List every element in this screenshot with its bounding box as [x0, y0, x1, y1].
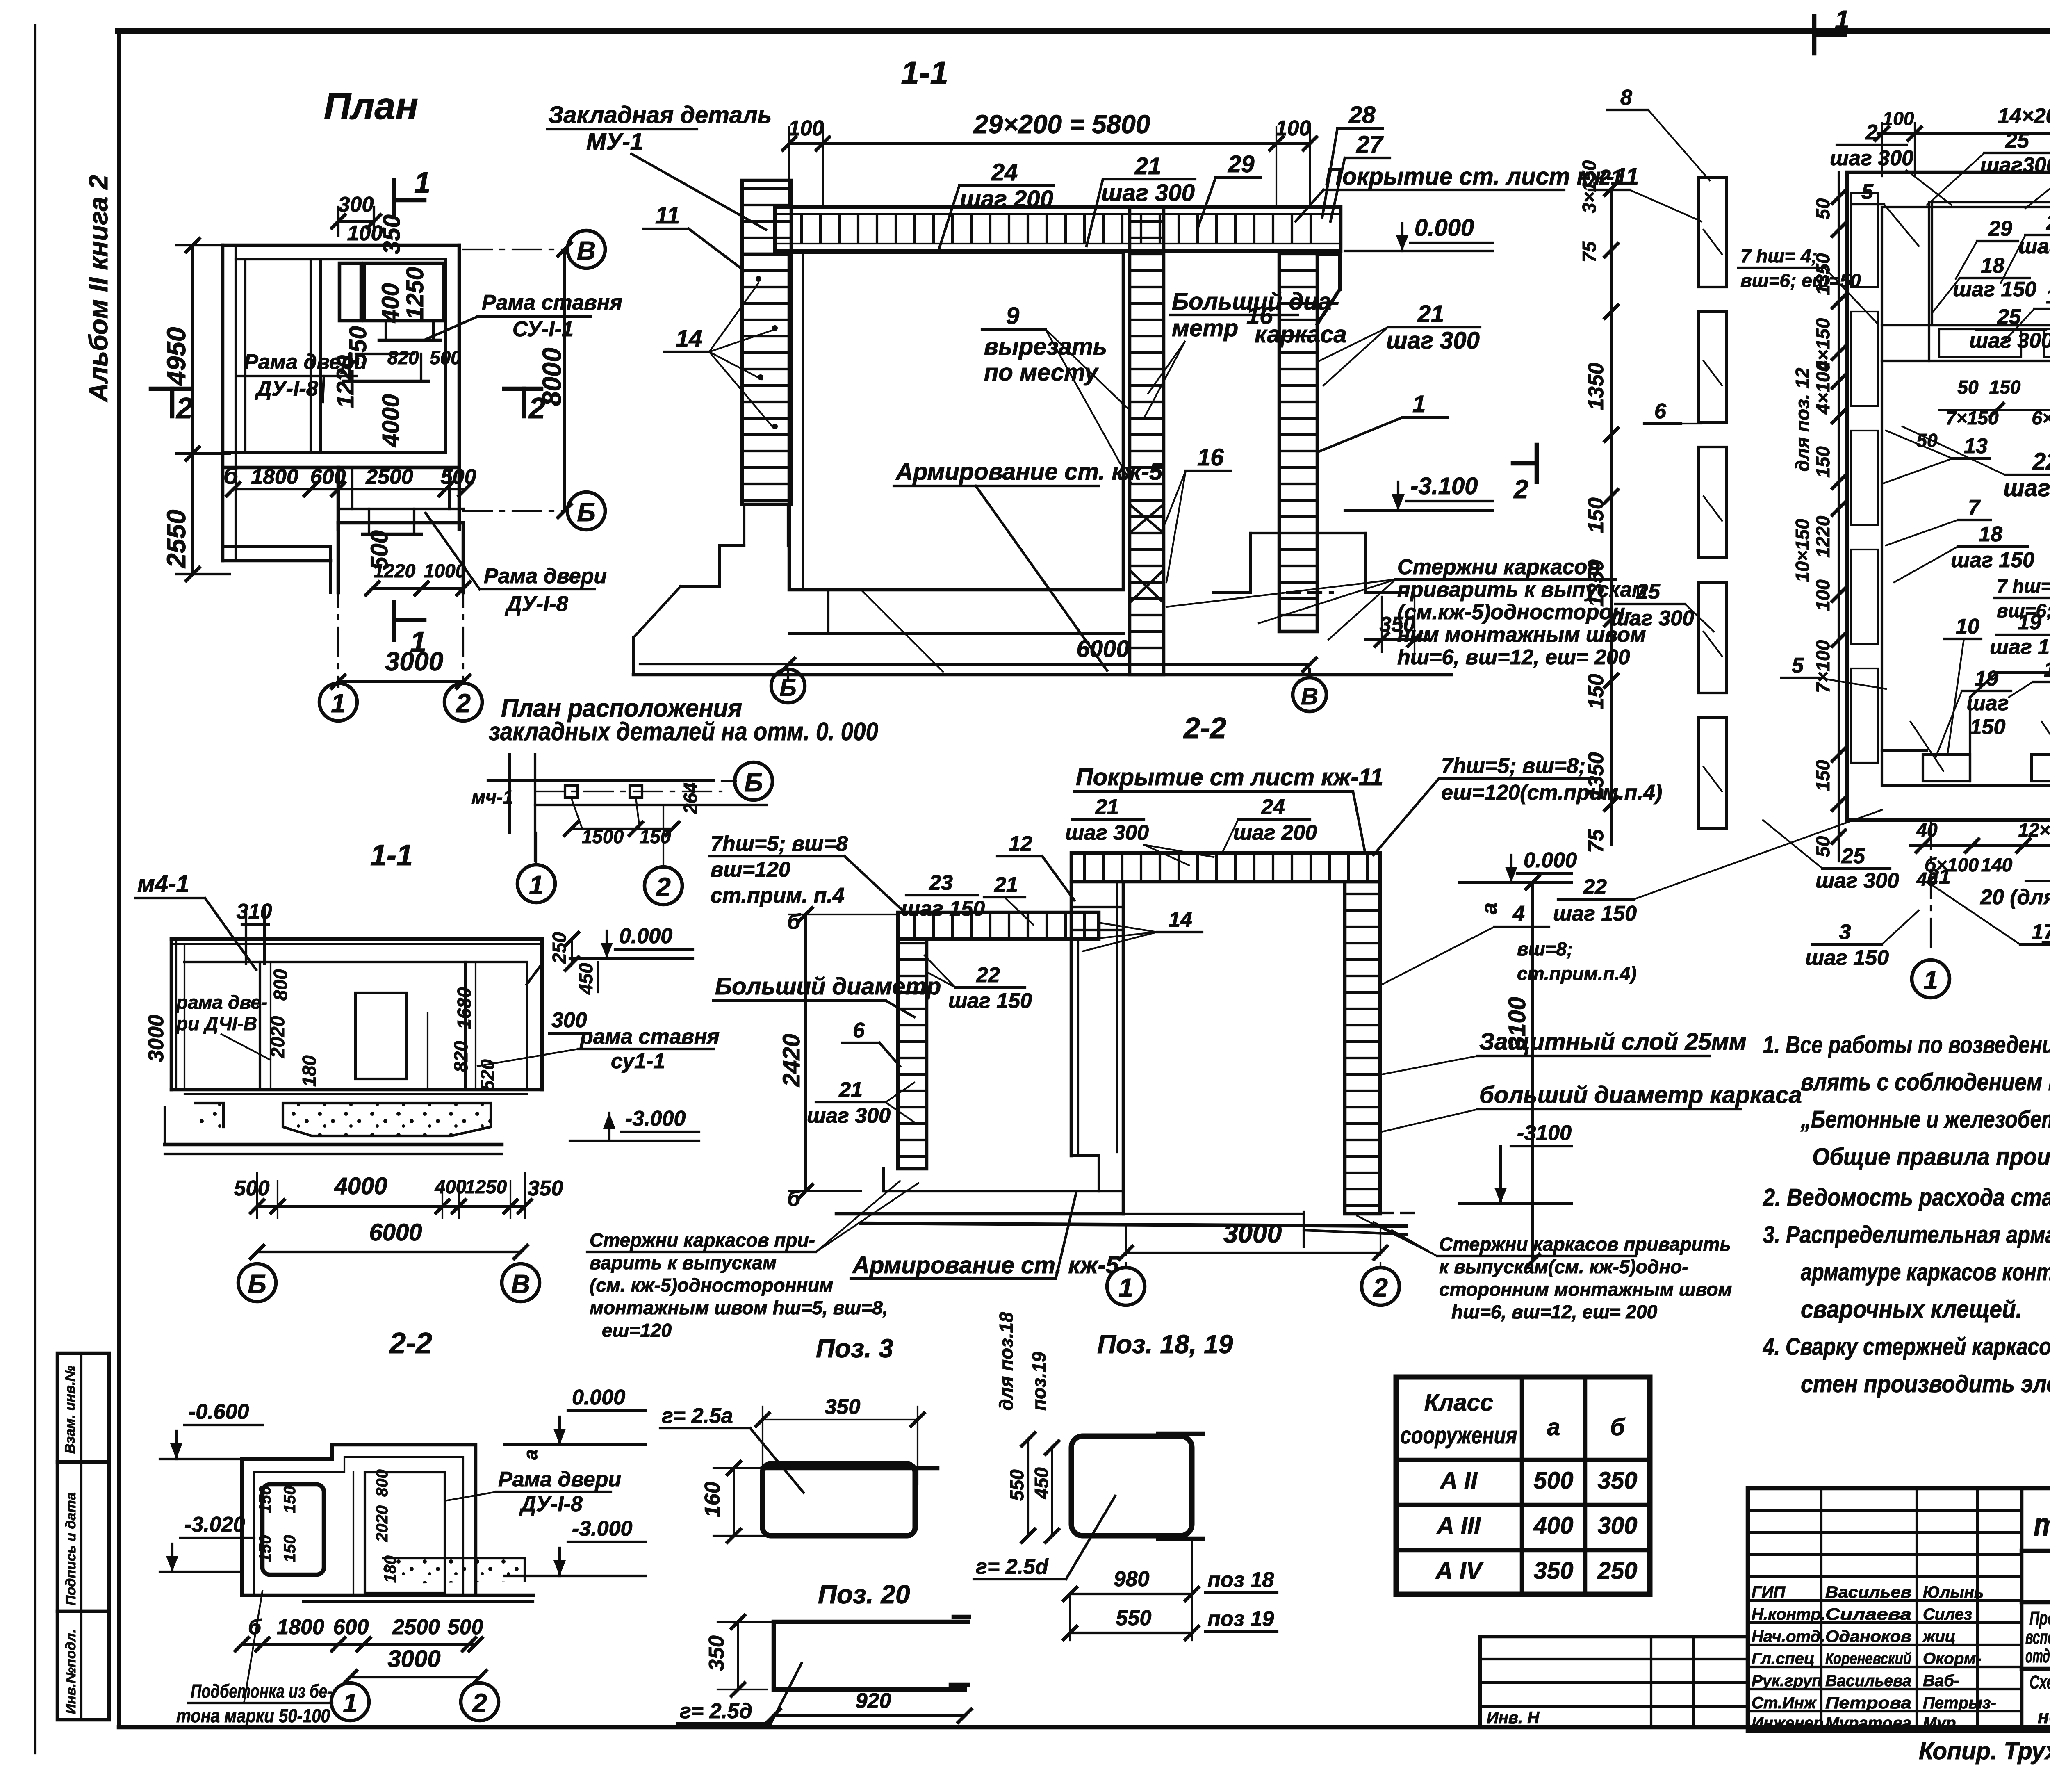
main stamp outer [1748, 1488, 2050, 1731]
svg-text:Покрытие ст лист кж-11: Покрытие ст лист кж-11 [1076, 764, 1383, 791]
svg-text:Б: Б [248, 1269, 266, 1299]
svg-text:14: 14 [1168, 908, 1192, 932]
svg-text:Кореневский: Кореневский [1825, 1650, 1911, 1668]
section flag 1 top [1812, 16, 1817, 53]
svg-text:Б: Б [744, 768, 763, 797]
svg-text:-3.020: -3.020 [184, 1513, 245, 1537]
svg-text:150: 150 [1812, 446, 1834, 478]
svg-text:Рама двери: Рама двери [244, 350, 367, 374]
foundation under main wall [827, 590, 829, 634]
svg-text:hш=6, вш=12, еш= 200: hш=6, вш=12, еш= 200 [1397, 645, 1630, 669]
bottom dim 6000 [788, 663, 1310, 666]
svg-text:ГИП: ГИП [1752, 1583, 1786, 1601]
svg-text:шаг 300: шаг 300 [1610, 606, 1694, 630]
circle axis 1 [319, 683, 357, 721]
svg-text:метр: метр [1172, 315, 1238, 342]
circle axis B (Cyrillic) [771, 669, 805, 703]
section mark 1 bottom [392, 602, 396, 640]
svg-text:Инв. Н: Инв. Н [1487, 1709, 1540, 1727]
svg-text:14: 14 [676, 325, 702, 352]
svg-text:жиц: жиц [1922, 1628, 1956, 1646]
svg-text:350: 350 [528, 1176, 563, 1200]
plan left wall [221, 245, 225, 561]
svg-text:14×200: 14×200 [1998, 104, 2050, 128]
left wall [170, 939, 173, 1090]
svg-text:25: 25 [2005, 129, 2029, 153]
svg-text:4: 4 [1512, 902, 1525, 926]
svg-text:500: 500 [430, 347, 461, 368]
svg-text:450: 450 [575, 963, 597, 995]
outline [242, 1445, 476, 1595]
svg-text:16: 16 [1197, 444, 1224, 471]
svg-text:350: 350 [1380, 613, 1415, 636]
svg-text:25: 25 [1997, 305, 2021, 329]
svg-text:еш=120: еш=120 [602, 1320, 672, 1341]
svg-text:г= 2.5д: г= 2.5д [680, 1699, 752, 1723]
svg-text:150: 150 [1812, 760, 1834, 791]
svg-text:Мур: Мур [1923, 1714, 1956, 1732]
svg-text:500: 500 [448, 1615, 483, 1639]
svg-text:Ваб-: Ваб- [1923, 1672, 1959, 1690]
circle B [672, 780, 736, 782]
svg-text:Стержни каркасов: Стержни каркасов [1397, 555, 1600, 579]
svg-text:140: 140 [1981, 854, 2013, 875]
svg-text:т.п. А-II,III,IV-450-320.86: т.п. А-II,III,IV-450-320.86 [2034, 1506, 2050, 1543]
svg-text:шаг 200: шаг 200 [1233, 821, 1317, 845]
vertical dim 8000 between axes [563, 249, 566, 511]
svg-text:б: б [787, 910, 801, 934]
left wall column with ladder [742, 180, 791, 254]
svg-text:16: 16 [2046, 285, 2050, 308]
svg-text:В: В [577, 236, 596, 265]
svg-text:г= 2.5а: г= 2.5а [662, 1404, 733, 1428]
svg-text:50: 50 [1812, 198, 1834, 219]
circle 2 low [645, 867, 682, 905]
svg-text:рама ставня: рама ставня [579, 1025, 720, 1049]
stirrup rect [763, 1464, 915, 1536]
svg-text:поз.19: поз.19 [1028, 1352, 1050, 1411]
roof band left (lower level) [898, 912, 1099, 939]
section mark 2 right [504, 387, 541, 391]
inner closet [355, 993, 406, 1079]
svg-text:стен производить электродами: стен производить электродами типа Э50А. [1801, 1370, 2050, 1398]
svg-text:мч-1: мч-1 [471, 787, 513, 808]
svg-text:40: 40 [1916, 819, 1938, 841]
svg-text:500: 500 [1534, 1467, 1574, 1494]
svg-text:вспомогательного назначения: вспомогательного назначения [2025, 1626, 2050, 1648]
svg-text:шаг 150: шаг 150 [2003, 475, 2050, 502]
svg-text:3: 3 [1839, 920, 1851, 944]
svg-text:закладных деталей на отм. 0.: закладных деталей на отм. 0. 000 [489, 718, 878, 746]
svg-text:150: 150 [281, 1486, 299, 1513]
svg-text:Закладная деталь: Закладная деталь [548, 102, 772, 128]
right footing [1250, 532, 1279, 534]
dim 1220 1000 [372, 587, 463, 590]
svg-text:рама две-: рама две- [175, 992, 267, 1013]
svg-text:400: 400 [1533, 1512, 1574, 1539]
dim chain A far left [1610, 189, 1613, 845]
dim 3000 bottom [1126, 1252, 1380, 1254]
interior horizontal wall (axis B zone) [223, 451, 446, 454]
svg-text:ДУ-I-8: ДУ-I-8 [255, 377, 318, 401]
svg-text:арматуре каркасов контактной т: арматуре каркасов контактной точечной св… [1801, 1259, 2050, 1286]
axes dashdot to circles 1 2 [337, 529, 339, 684]
svg-text:вш=8;: вш=8; [1517, 938, 1573, 960]
svg-text:1: 1 [414, 166, 430, 199]
upper room inner rect [1932, 202, 2050, 325]
svg-text:В: В [1301, 683, 1318, 710]
svg-text:Васильев: Васильев [1825, 1583, 1911, 1601]
svg-text:Схемы расположения элементов: Схемы расположения элементов [2029, 1671, 2050, 1693]
svg-text:300: 300 [338, 193, 374, 217]
circles 1 2 [331, 1683, 369, 1721]
svg-text:150: 150 [1970, 715, 2006, 739]
svg-text:Петрыз-: Петрыз- [1923, 1694, 1996, 1712]
svg-text:-3.000: -3.000 [572, 1517, 633, 1541]
svg-text:шаг 300: шаг 300 [1969, 329, 2050, 353]
box inv podl [57, 1611, 109, 1720]
lower extension walls [337, 467, 340, 529]
svg-text:ним монтажным швом: ним монтажным швом [1397, 623, 1646, 647]
svg-text:24: 24 [991, 159, 1018, 186]
svg-text:18: 18 [1979, 522, 2002, 546]
svg-text:150: 150 [256, 1535, 274, 1562]
svg-text:Инженер: Инженер [1752, 1714, 1823, 1732]
svg-text:75: 75 [1578, 241, 1600, 262]
svg-text:6: 6 [853, 1019, 865, 1042]
dims 1500 150 [571, 828, 672, 830]
svg-text:шаг 300: шаг 300 [1386, 327, 1480, 354]
svg-text:Стержни каркасов приварить: Стержни каркасов приварить [1439, 1233, 1731, 1255]
svg-text:1: 1 [1118, 1273, 1133, 1302]
svg-text:для поз. 12: для поз. 12 [1792, 367, 1813, 472]
svg-text:6000: 6000 [1076, 636, 1129, 662]
svg-text:2020: 2020 [373, 1505, 391, 1542]
svg-text:13: 13 [1964, 434, 1988, 458]
svg-text:1: 1 [529, 870, 544, 900]
box podpis i data [57, 1462, 109, 1611]
svg-text:для поз.18: для поз.18 [995, 1312, 1017, 1411]
svg-text:250: 250 [1597, 1557, 1638, 1584]
frame bottom border [119, 1725, 2050, 1730]
svg-text:22: 22 [976, 963, 1000, 987]
svg-text:2: 2 [175, 392, 193, 425]
svg-text:Подбетонка из бе-: Подбетонка из бе- [191, 1680, 332, 1702]
svg-text:А II: А II [1440, 1467, 1478, 1494]
svg-text:Армирование ст. кж-5: Армирование ст. кж-5 [852, 1252, 1119, 1279]
ground lines [165, 1143, 502, 1147]
svg-text:шаг 150: шаг 150 [1953, 278, 2036, 301]
top dim line 100 29x200=5800 100 [789, 142, 1310, 145]
svg-text:hш=6, вш=12, еш= 200: hш=6, вш=12, еш= 200 [1451, 1301, 1658, 1322]
left wall caisson boxes [1851, 193, 1878, 287]
svg-text:Ст.Инж: Ст.Инж [1752, 1694, 1817, 1712]
section flag 2 leftside [1535, 445, 1539, 482]
svg-text:0.000: 0.000 [1524, 848, 1577, 872]
svg-text:Взам. инв.№: Взам. инв.№ [62, 1366, 78, 1454]
svg-text:Н.контр.: Н.контр. [1752, 1605, 1825, 1623]
section mark 2 left [151, 387, 189, 391]
svg-text:50: 50 [1812, 836, 1834, 857]
svg-text:Муратова: Муратова [1825, 1714, 1911, 1732]
svg-text:1800: 1800 [277, 1615, 324, 1639]
svg-text:-3100: -3100 [1517, 1121, 1572, 1145]
svg-text:Рама ставня: Рама ставня [482, 291, 622, 315]
dim 980 poz 18 [1070, 1593, 1192, 1595]
dim chain B [1838, 172, 1840, 861]
svg-text:27: 27 [1356, 131, 1384, 158]
svg-text:350: 350 [825, 1395, 861, 1419]
svg-text:21: 21 [1417, 301, 1444, 327]
svg-text:21: 21 [1095, 795, 1119, 819]
svg-text:г= 2.5d: г= 2.5d [976, 1555, 1049, 1579]
left pedestal and footing steps [743, 504, 745, 545]
dim 550 poz 19 [1070, 1632, 1192, 1634]
svg-text:варить к выпускам: варить к выпускам [590, 1252, 777, 1273]
svg-text:4. Сварку стержней каркасов: 4. Сварку стержней каркасов покрытия со … [1763, 1333, 2050, 1360]
bottom dim chain [257, 1205, 525, 1208]
svg-text:а: а [1547, 1414, 1560, 1441]
svg-text:еш=120(ст.прим.п.4): еш=120(ст.прим.п.4) [1441, 781, 1662, 805]
svg-text:Больший диаметр: Больший диаметр [715, 973, 941, 1000]
svg-text:310: 310 [237, 900, 272, 923]
svg-text:6: 6 [1654, 399, 1667, 423]
svg-text:Стержни каркасов при-: Стержни каркасов при- [590, 1229, 815, 1251]
svg-text:180: 180 [298, 1055, 320, 1087]
dim 350 under right footing [1381, 597, 1383, 652]
svg-text:1680: 1680 [453, 987, 475, 1029]
svg-text:500: 500 [441, 465, 476, 489]
svg-text:„Бетонные и железобетонные кон: „Бетонные и железобетонные конструкций м… [1800, 1106, 2050, 1133]
frame left border [117, 31, 121, 1727]
svg-text:21: 21 [1599, 166, 1623, 189]
svg-text:400: 400 [435, 1176, 467, 1197]
svg-text:2020: 2020 [267, 1016, 288, 1058]
svg-text:Оданоков: Оданоков [1825, 1628, 1911, 1646]
svg-text:12: 12 [1009, 832, 1032, 856]
svg-text:350: 350 [378, 214, 405, 254]
big code row [2020, 1488, 2024, 1731]
top slab [171, 937, 542, 941]
svg-text:отдельно стоящее заглубленное: отдельно стоящее заглубленное [2025, 1645, 2050, 1667]
svg-text:2-2: 2-2 [389, 1327, 432, 1360]
foundation slab and ground [836, 1212, 1123, 1216]
svg-text:3000: 3000 [144, 1015, 168, 1062]
floor [171, 1088, 542, 1092]
horizontal interior band [1882, 324, 2050, 326]
svg-text:21: 21 [1927, 865, 1951, 889]
svg-text:2420: 2420 [778, 1034, 805, 1087]
svg-text:сооружения: сооружения [1401, 1422, 1517, 1449]
svg-text:Поз. 20: Поз. 20 [818, 1580, 910, 1609]
bottom dim chain b 1800 600 2500 500 [233, 488, 465, 490]
svg-text:Инв.№подл.: Инв.№подл. [63, 1629, 79, 1714]
svg-text:1250: 1250 [402, 267, 428, 320]
svg-text:-3.000: -3.000 [625, 1107, 686, 1131]
outer wall rect [1847, 172, 2050, 820]
svg-text:21: 21 [838, 1078, 863, 1102]
svg-text:0.000: 0.000 [572, 1386, 625, 1409]
svg-text:1: 1 [343, 1688, 358, 1718]
door inner [365, 1472, 445, 1593]
svg-text:820: 820 [387, 347, 419, 368]
svg-text:300: 300 [1598, 1512, 1638, 1539]
chimney [245, 908, 247, 964]
box vzam inv [57, 1353, 109, 1462]
svg-text:1250: 1250 [465, 1176, 507, 1197]
svg-text:ст.прим.п.4): ст.прим.п.4) [1517, 963, 1637, 984]
svg-text:25: 25 [1636, 580, 1660, 604]
svg-text:0.000: 0.000 [619, 924, 672, 948]
svg-text:-0.600: -0.600 [189, 1400, 249, 1424]
svg-text:350: 350 [1534, 1557, 1574, 1584]
svg-text:сторонним монтажным швом: сторонним монтажным швом [1439, 1279, 1732, 1300]
svg-text:820: 820 [450, 1041, 471, 1072]
svg-text:а: а [520, 1449, 541, 1460]
svg-text:7: 7 [1968, 496, 1981, 520]
svg-text:7×100: 7×100 [1812, 640, 1834, 693]
svg-text:250: 250 [549, 932, 570, 964]
roof slab [775, 207, 1341, 251]
svg-text:Рама двери: Рама двери [484, 564, 607, 588]
svg-text:4000: 4000 [378, 394, 404, 447]
svg-text:сварочных клещей.: сварочных клещей. [1801, 1296, 2022, 1323]
svg-text:7 hш=4; еш=50: 7 hш=4; еш=50 [1997, 575, 2050, 597]
svg-text:б: б [223, 463, 239, 489]
svg-text:А III: А III [1436, 1512, 1481, 1539]
svg-text:3×150: 3×150 [1578, 160, 1600, 213]
svg-text:1: 1 [1923, 965, 1938, 995]
svg-text:шаг 300: шаг 300 [1830, 146, 1913, 170]
svg-text:25: 25 [1841, 844, 1865, 868]
svg-text:12×100: 12×100 [2018, 819, 2050, 841]
svg-text:шаг300: шаг300 [1980, 153, 2050, 177]
svg-text:800: 800 [270, 969, 291, 1001]
sheet left edge line [34, 25, 36, 1753]
svg-text:к выпускам(см. кж-5)одно-: к выпускам(см. кж-5)одно- [1439, 1256, 1688, 1277]
svg-text:21: 21 [1134, 153, 1162, 180]
stirrup rect [1071, 1436, 1192, 1536]
svg-text:450: 450 [1031, 1467, 1052, 1499]
svg-text:су1-1: су1-1 [611, 1049, 665, 1073]
bottom dim chain [242, 1643, 476, 1646]
svg-text:2: 2 [456, 689, 471, 718]
svg-text:150: 150 [1584, 674, 1608, 709]
svg-text:1350: 1350 [1584, 559, 1608, 607]
svg-text:100: 100 [1883, 108, 1914, 129]
bottom interior band with pit [1882, 749, 1927, 752]
svg-text:шаг: шаг [1967, 691, 2009, 715]
svg-text:50: 50 [1957, 376, 1979, 398]
svg-text:0.000: 0.000 [1414, 214, 1474, 241]
svg-text:1. Все работы по возведению м: 1. Все работы по возведению монолитного … [1763, 1031, 2050, 1058]
svg-text:11: 11 [655, 202, 680, 229]
middle footing steps [1071, 1154, 1099, 1157]
mid door frame [348, 354, 351, 381]
circle axis V [1293, 678, 1326, 711]
svg-text:шаг 150: шаг 150 [901, 897, 985, 921]
interior partition vertical [310, 259, 312, 453]
left dim line [191, 245, 194, 574]
svg-text:шаг 150: шаг 150 [948, 989, 1032, 1013]
stipple [383, 1558, 525, 1584]
svg-text:2500: 2500 [365, 465, 413, 489]
svg-text:2: 2 [1865, 121, 1878, 144]
svg-text:20 (для поз.11): 20 (для поз.11) [1980, 885, 2050, 909]
detached strip wall segments (left) [1699, 178, 1727, 287]
svg-text:400: 400 [377, 283, 404, 323]
left wall bottom foot [898, 1167, 927, 1170]
svg-text:10: 10 [1956, 615, 1979, 638]
svg-text:18: 18 [1981, 254, 2004, 278]
vertical dims 550 450 [1027, 1439, 1029, 1536]
svg-text:19: 19 [2018, 611, 2041, 634]
svg-text:1800: 1800 [251, 465, 298, 489]
svg-text:ДУ-I-8: ДУ-I-8 [519, 1492, 583, 1516]
left wall ladder [898, 939, 927, 1169]
svg-text:300: 300 [551, 1008, 587, 1032]
svg-text:поз 19: поз 19 [1207, 1607, 1274, 1631]
svg-text:100: 100 [1812, 579, 1834, 611]
svg-text:Б: Б [577, 497, 595, 527]
bottom small dim chain [1911, 844, 2050, 847]
svg-text:8: 8 [1620, 86, 1632, 109]
shutter frame below shaft [385, 323, 387, 340]
svg-text:28: 28 [1348, 102, 1376, 128]
svg-text:ДУ-I-8: ДУ-I-8 [505, 592, 568, 616]
svg-text:Общие правила производства и п: Общие правила производства и приемки раб… [1812, 1143, 2050, 1170]
svg-text:1: 1 [1412, 391, 1426, 417]
svg-text:б: б [1610, 1414, 1626, 1441]
svg-text:9: 9 [1006, 303, 1019, 329]
svg-text:Окорм-: Окорм- [1923, 1650, 1982, 1668]
svg-text:24: 24 [1261, 795, 1285, 819]
svg-text:шаг 200: шаг 200 [960, 186, 1053, 212]
svg-text:1: 1 [1835, 5, 1850, 34]
svg-text:монтажным швом hш=5, вш=8,: монтажным швом hш=5, вш=8, [590, 1297, 888, 1318]
svg-text:7hш=5; вш=8: 7hш=5; вш=8 [711, 832, 848, 856]
svg-text:600: 600 [310, 465, 346, 489]
svg-text:1-1: 1-1 [370, 839, 413, 872]
stirrup box [262, 1484, 324, 1575]
svg-text:2: 2 [1373, 1273, 1388, 1302]
svg-text:100: 100 [788, 116, 824, 140]
middle column ladder [1130, 207, 1164, 675]
svg-text:1220: 1220 [1812, 515, 1834, 558]
svg-text:Копир. Трух: Копир. Трух [1919, 1738, 2050, 1765]
svg-text:1350: 1350 [1584, 752, 1608, 800]
svg-text:шаг 150: шаг 150 [1553, 902, 1637, 926]
svg-text:23: 23 [929, 871, 953, 895]
svg-text:3000: 3000 [387, 1646, 440, 1672]
svg-text:Б: Б [779, 675, 796, 701]
svg-text:ри ДЧI-В: ри ДЧI-В [175, 1013, 257, 1034]
svg-text:Васильева: Васильева [1825, 1672, 1911, 1690]
svg-text:550: 550 [1006, 1469, 1027, 1501]
svg-text:шаг 150: шаг 150 [1990, 635, 2050, 659]
svg-text:больший диаметр каркаса: больший диаметр каркаса [1479, 1082, 1802, 1108]
svg-text:2500: 2500 [392, 1615, 440, 1639]
svg-text:шаг 300: шаг 300 [807, 1104, 891, 1128]
svg-text:Производственное здание: Производственное здание [2029, 1607, 2050, 1629]
svg-text:5: 5 [1792, 654, 1804, 677]
svg-text:264: 264 [680, 782, 701, 814]
svg-text:17: 17 [2032, 920, 2050, 944]
circle axis 2 [444, 683, 482, 721]
svg-text:22: 22 [1583, 875, 1607, 899]
svg-text:160: 160 [701, 1482, 724, 1517]
svg-text:Класс: Класс [1424, 1389, 1494, 1416]
